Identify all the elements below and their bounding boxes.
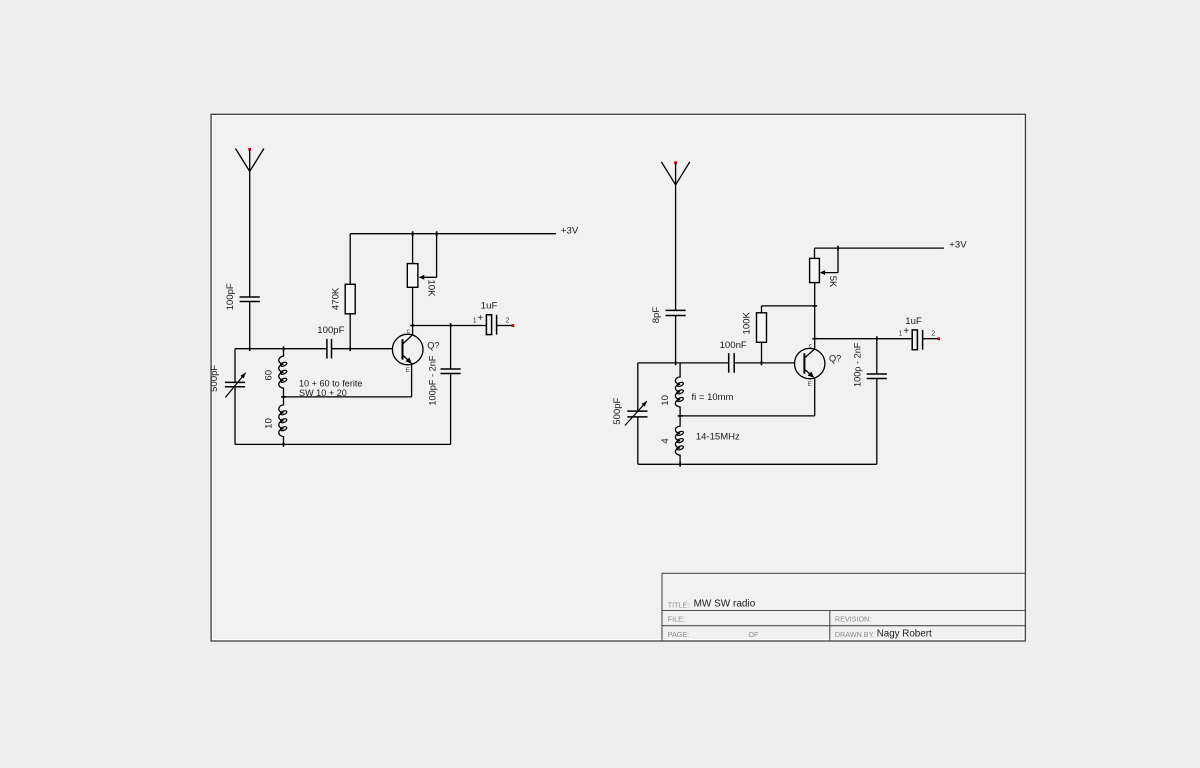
node junction collector/output Q2: [812, 338, 817, 340]
transistor Q1 emitter arrowhead: [406, 357, 412, 363]
svg-text:60: 60: [263, 370, 274, 381]
svg-text:Q?: Q?: [427, 340, 439, 350]
node junction antenna2/tank2: [675, 361, 677, 366]
wire C8 output stub: [923, 338, 939, 340]
svg-text:OF: OF: [748, 630, 759, 639]
svg-text:E: E: [406, 368, 410, 374]
node junction output cap C3: [450, 323, 452, 328]
capacitor C8 1uF right plate: [922, 330, 924, 350]
svg-text:E: E: [808, 382, 812, 388]
svg-text:10 + 60 to ferite: 10 + 60 to ferite: [299, 379, 362, 389]
svg-text:100pF: 100pF: [317, 325, 344, 336]
svg-text:10K: 10K: [425, 279, 436, 297]
svg-text:100nF: 100nF: [720, 340, 747, 351]
wire antenna stem AE2: [675, 163, 677, 310]
svg-text:10: 10: [263, 418, 274, 429]
potentiometer RV1 10K bottom lead / collector wire: [412, 287, 414, 335]
wire C5 to tank2: [675, 316, 677, 363]
antenna arms: [236, 149, 264, 172]
svg-text:4: 4: [660, 438, 671, 444]
svg-text:2: 2: [931, 331, 935, 338]
svg-text:fi = 10mm: fi = 10mm: [692, 392, 734, 403]
svg-text:MW SW radio: MW SW radio: [694, 598, 756, 609]
svg-text:Nagy Robert: Nagy Robert: [877, 628, 932, 639]
inductor L4 4: [675, 416, 680, 464]
node junction wiper RV2 rail: [837, 246, 839, 251]
title block line under file row: [662, 625, 1025, 627]
svg-text:8pF: 8pF: [651, 307, 662, 324]
capacitor C3 bottom lead: [450, 374, 452, 445]
potentiometer RV1 wiper arrow: [421, 276, 437, 278]
wire +3V rail 2: [815, 247, 944, 249]
capacitor C7 100p-2nF top lead: [876, 339, 878, 374]
title block line under title row: [662, 610, 1025, 612]
wire tank2 bottom: [638, 463, 877, 465]
svg-text:470K: 470K: [331, 287, 342, 310]
svg-text:Q?: Q?: [829, 354, 841, 364]
potentiometer RV2 5K body: [810, 258, 820, 282]
capacitor C4 1uF right plate: [496, 315, 498, 335]
transistor Q2 collector diagonal: [805, 349, 815, 358]
wire wiper RV1 to rail: [436, 234, 438, 278]
node junction L4 bottom: [679, 462, 681, 467]
wire tank2 left vertical upper: [637, 363, 639, 411]
title block vertical divider: [829, 611, 831, 642]
transistor Q2 base bar: [803, 353, 805, 373]
node junction output cap C7: [876, 336, 878, 341]
antenna red pin dot: [248, 148, 251, 151]
variable capacitor CV2 arrow: [625, 401, 647, 425]
svg-text:REVISION:: REVISION:: [835, 615, 871, 624]
variable capacitor CV1 arrow: [225, 373, 245, 398]
transistor Q1 emitter diagonal: [403, 355, 411, 363]
resistor R2 100K body: [757, 313, 767, 343]
node junction L2 bottom: [283, 442, 285, 447]
wire emitter Q1 vertical: [411, 363, 413, 397]
sheet inner white edge: [212, 115, 1024, 640]
node output red dot 2: [937, 337, 940, 340]
wire tank1 left vertical upper: [234, 349, 236, 383]
node junction R2 base: [761, 361, 763, 366]
capacitor C7 bottom lead: [876, 379, 878, 465]
svg-text:+: +: [477, 313, 483, 324]
svg-text:100pF: 100pF: [225, 283, 236, 310]
variable capacitor CV1 500pF plates: [225, 381, 245, 383]
node junction tap1: [281, 396, 286, 398]
capacitor 100pF antenna C1: [240, 296, 260, 298]
svg-text:14-15MHz: 14-15MHz: [696, 431, 740, 442]
svg-text:2: 2: [506, 317, 510, 324]
capacitor C7 100p-2nF plates: [867, 373, 887, 375]
capacitor C8 1uF electrolytic left plate: [912, 330, 917, 350]
node output red dot 1: [512, 324, 515, 327]
svg-text:100K: 100K: [742, 311, 753, 334]
svg-text:c: c: [407, 329, 410, 335]
potentiometer RV1 10K body: [407, 264, 418, 288]
wire C4 output stub: [497, 325, 513, 327]
node junction antenna/tank1: [249, 346, 251, 351]
wire C1 to tank top: [249, 302, 251, 349]
wire tap1 horizontal: [284, 396, 412, 398]
transistor Q1 circle: [392, 334, 423, 365]
node junction tap2: [678, 415, 683, 417]
capacitor C3 100pF-2nF plates: [441, 368, 461, 370]
potentiometer RV1 10K top lead: [412, 234, 414, 264]
inductor L2 10: [279, 397, 284, 445]
capacitor C4 1uF electrolytic left plate: [486, 315, 491, 335]
wire C6 to base Q2: [734, 362, 794, 364]
wire R2 top to collector: [762, 305, 815, 307]
svg-text:100p - 2nF: 100p - 2nF: [852, 342, 862, 387]
wire antenna stem AE1: [249, 150, 251, 297]
svg-text:10: 10: [660, 395, 671, 406]
svg-text:1: 1: [899, 331, 903, 338]
transistor Q2 emitter diagonal: [805, 370, 814, 378]
svg-text:DRAWN BY:: DRAWN BY:: [835, 630, 875, 639]
capacitor C3 100pF-2nF top lead: [450, 326, 452, 369]
svg-text:c: c: [809, 343, 812, 349]
capacitor 100pF coupling C2: [326, 339, 328, 359]
wire tap2 horizontal: [680, 415, 815, 417]
inductor L1 60: [279, 349, 284, 397]
svg-text:FILE:: FILE:: [668, 615, 685, 624]
wire tank2 left vertical lower: [637, 417, 639, 464]
potentiometer RV2 bottom lead / collector wire: [814, 283, 816, 349]
capacitor C6 100nF coupling: [728, 353, 730, 373]
potentiometer RV2 wiper arrow: [822, 272, 838, 274]
resistor R1 470K leads: [349, 234, 351, 285]
wire tank1 top: [235, 348, 327, 350]
wire output 1: [413, 325, 487, 327]
resistor R2 100K leads: [761, 342, 763, 363]
node junction wiper RV1 rail: [436, 231, 438, 236]
svg-text:TITLE:: TITLE:: [668, 600, 690, 609]
variable capacitor CV2 500pF plates: [627, 410, 647, 412]
transistor Q1 collector diagonal: [403, 335, 413, 344]
svg-text:500pF: 500pF: [612, 397, 623, 424]
svg-text:1: 1: [473, 317, 477, 324]
inductor L3 10: [675, 363, 680, 416]
svg-text:+3V: +3V: [561, 225, 579, 236]
wire wiper RV2 to rail: [837, 248, 839, 273]
transistor Q2 circle: [795, 348, 825, 378]
transistor Q2 emitter arrowhead: [808, 372, 814, 378]
svg-text:500pF: 500pF: [209, 365, 220, 392]
node junction pot RV1 top: [412, 231, 414, 236]
node junction L1 top: [283, 346, 285, 351]
wire tank1 bottom: [235, 443, 451, 445]
node junction R2 wire collector: [812, 305, 817, 307]
wire tank2 top / base wire: [638, 362, 729, 364]
wire C2 to base Q1: [332, 348, 393, 350]
node junction collector/output Q1: [410, 325, 415, 327]
wire output 2: [815, 338, 912, 340]
sheet border: [211, 114, 1025, 641]
capacitor C5 8pF plates: [666, 309, 686, 311]
svg-text:1uF: 1uF: [481, 301, 498, 312]
resistor R1 470K body: [345, 284, 355, 314]
title block outer box: [662, 573, 1025, 641]
wire tank1 left vertical lower: [234, 387, 236, 445]
wire emitter Q2 vertical: [814, 378, 816, 416]
antenna arms: [661, 162, 689, 185]
svg-text:+: +: [903, 326, 909, 337]
wire +3V rail 1: [350, 233, 556, 235]
transistor Q1 base bar: [402, 339, 404, 359]
potentiometer RV2 5K top lead: [814, 248, 816, 258]
node junction R1 base: [349, 346, 351, 351]
svg-text:100pF - 2nF: 100pF - 2nF: [427, 355, 437, 405]
antenna red pin dot: [674, 161, 677, 164]
svg-text:5K: 5K: [827, 276, 838, 288]
svg-text:+3V: +3V: [949, 240, 967, 251]
svg-text:PAGE:: PAGE:: [668, 630, 689, 639]
